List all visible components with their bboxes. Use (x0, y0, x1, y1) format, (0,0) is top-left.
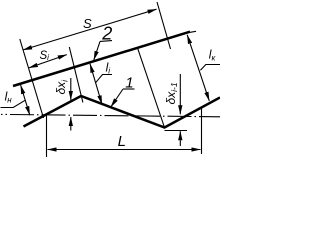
extension line left (L dim) (46, 116, 48, 158)
svg-text:L: L (118, 133, 126, 150)
dimension L (48, 149, 201, 151)
svg-text:lн: lн (5, 90, 13, 105)
dimension S (23, 9, 156, 50)
extension line B (right perpendicular) (157, 2, 171, 49)
extension line D (through valley) (137, 47, 164, 127)
dimension ln (21, 85, 30, 115)
leader lk (200, 65, 220, 71)
extension line A (left perpendicular) (20, 39, 44, 118)
extension line right (L dim) (201, 108, 203, 155)
svg-text:δxi-1: δxi-1 (164, 82, 179, 104)
svg-text:S: S (83, 16, 92, 31)
svg-text:li: li (106, 60, 111, 75)
line 1 (broken profile line) (24, 96, 221, 128)
dimension lk (187, 35, 209, 101)
extension at valley level (165, 130, 188, 132)
dimension dxi-1 upper arrow (179, 74, 181, 114)
end tick of line 2 (190, 31, 197, 32)
leader li (96, 75, 112, 83)
dimension dxi-1 lower arrow (179, 131, 181, 146)
line 2 (alignment line) (13, 32, 190, 86)
leader ln (1, 100, 26, 107)
dimension dxi upper arrow (70, 78, 72, 100)
dimension dxi lower arrow (70, 117, 72, 131)
extension line C (through peak) (69, 47, 83, 103)
svg-text:lк: lк (209, 48, 217, 63)
axis center line (1, 114, 220, 116)
svg-text:Si: Si (40, 50, 50, 62)
dimension Si (29, 55, 67, 68)
svg-text:δxi: δxi (54, 79, 69, 95)
dimension li (90, 64, 102, 105)
